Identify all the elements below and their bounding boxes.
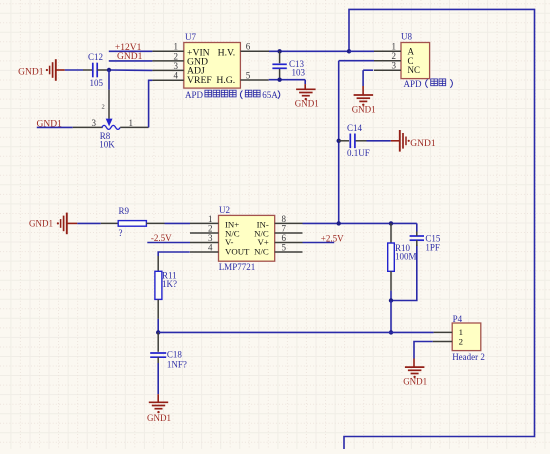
svg-text:2: 2 <box>174 51 179 61</box>
svg-text:1: 1 <box>129 118 134 128</box>
svg-text:1: 1 <box>208 214 213 224</box>
svg-text:H.V.: H.V. <box>218 47 236 58</box>
svg-text:105: 105 <box>90 78 104 88</box>
svg-text:65A: 65A <box>262 90 278 100</box>
svg-text:?: ? <box>119 228 123 238</box>
svg-text:VOUT: VOUT <box>225 247 250 257</box>
svg-text:100M: 100M <box>395 252 417 262</box>
svg-text:Header 2: Header 2 <box>452 352 485 362</box>
svg-text:3: 3 <box>174 61 179 71</box>
svg-text:R9: R9 <box>119 206 130 216</box>
svg-text:3: 3 <box>92 118 97 128</box>
svg-text:+2.5V: +2.5V <box>321 233 344 243</box>
svg-text:APD: APD <box>185 90 204 100</box>
svg-text:4: 4 <box>174 71 179 81</box>
svg-text:P4: P4 <box>453 314 463 324</box>
svg-text:103: 103 <box>292 67 306 77</box>
svg-text:U2: U2 <box>219 205 230 215</box>
svg-text:-2.5V: -2.5V <box>151 233 172 243</box>
svg-text:NC: NC <box>408 65 421 75</box>
svg-text:1PF: 1PF <box>425 243 440 253</box>
svg-text:7: 7 <box>282 223 287 233</box>
svg-text:U8: U8 <box>401 32 412 42</box>
svg-text:6: 6 <box>246 41 251 51</box>
svg-text:1NF?: 1NF? <box>167 360 187 370</box>
svg-text:GND1: GND1 <box>18 67 44 77</box>
svg-text:GND1: GND1 <box>352 104 376 114</box>
svg-text:2: 2 <box>459 336 463 346</box>
svg-text:C18: C18 <box>167 350 183 360</box>
svg-text:H.G.: H.G. <box>216 75 235 86</box>
svg-text:2: 2 <box>392 51 397 61</box>
svg-text:GND1: GND1 <box>295 98 319 108</box>
svg-text:3: 3 <box>392 61 397 71</box>
svg-text:N/C: N/C <box>254 247 269 257</box>
svg-text:GND1: GND1 <box>29 219 53 229</box>
svg-text:0.1UF: 0.1UF <box>347 148 370 158</box>
svg-text:C14: C14 <box>347 123 363 133</box>
svg-text:3: 3 <box>208 233 213 243</box>
svg-text:10K: 10K <box>99 139 115 149</box>
svg-text:6: 6 <box>282 233 287 243</box>
svg-text:5: 5 <box>282 242 287 252</box>
svg-text:1: 1 <box>174 42 179 52</box>
svg-text:GND1: GND1 <box>147 413 171 423</box>
svg-text:5: 5 <box>246 70 251 80</box>
svg-text:VREF: VREF <box>187 75 212 86</box>
svg-text:A: A <box>408 47 415 57</box>
svg-text:GND1: GND1 <box>403 376 427 386</box>
svg-text:C12: C12 <box>88 52 103 62</box>
svg-text:GND1: GND1 <box>117 52 143 62</box>
svg-text:1K?: 1K? <box>162 279 177 289</box>
svg-text:LMP7721: LMP7721 <box>219 262 256 272</box>
svg-text:4: 4 <box>208 242 213 252</box>
svg-text:APD: APD <box>404 79 423 89</box>
svg-text:2: 2 <box>208 223 213 233</box>
svg-text:2: 2 <box>102 104 105 111</box>
svg-text:8: 8 <box>282 214 287 224</box>
svg-text:GND1: GND1 <box>410 139 436 149</box>
svg-text:U7: U7 <box>185 32 196 42</box>
